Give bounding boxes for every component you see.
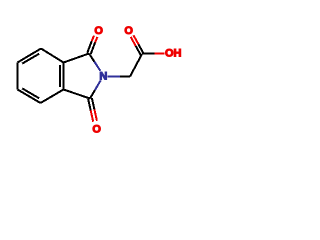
- carbonyl C3=O3 line A black part: [138, 44, 143, 53]
- benzene ring bond T-TR: [41, 49, 64, 63]
- carbonyl C1=O1 line A black part: [91, 43, 95, 55]
- bond CH2-C3: [130, 54, 142, 77]
- bond N-C2 blue half: [95, 80, 101, 90]
- carbonyl C1=O1 line B red part: [92, 36, 94, 42]
- carbonyl C1=O1 line B black part: [87, 41, 91, 53]
- carbonyl C2=O2 line A red part: [94, 109, 97, 120]
- benzene bond B-BL inner line: [22, 88, 39, 98]
- bond N-C2 black half: [90, 90, 95, 99]
- carbonyl C3=O3 line B red part: [131, 37, 136, 46]
- bond TR to carbonyl C1: [64, 54, 90, 63]
- benzene bond TL-T inner line: [22, 54, 39, 64]
- benzene ring bond BR-B: [41, 90, 64, 104]
- svg-text:OH: OH: [165, 48, 182, 60]
- bond C3-OH black half: [142, 53, 155, 55]
- bond C2-BR: [64, 90, 91, 99]
- svg-text:O: O: [94, 25, 103, 37]
- bond N-CH2 blue half: [108, 76, 121, 78]
- benzene ring bond BL-TL: [17, 63, 19, 90]
- benzene ring bond B-BL: [18, 90, 41, 104]
- carbonyl C2=O2 line B black part: [88, 99, 91, 110]
- carbonyl C1=O1 line A red part: [95, 37, 97, 43]
- carbonyl C3=O3 line A red part: [134, 35, 139, 44]
- bond C1-N black half: [89, 54, 94, 62]
- benzene ring bond TL-T: [18, 49, 42, 63]
- benzene fused bond TR-BR: [63, 63, 65, 90]
- benzene fused bond inner line: [59, 65, 61, 87]
- svg-text:O: O: [92, 124, 101, 136]
- svg-text:O: O: [124, 25, 133, 37]
- bond C1-N blue half: [94, 62, 100, 71]
- svg-text:N: N: [99, 71, 107, 83]
- carbonyl C3=O3 line B black part: [136, 46, 141, 55]
- bond C3-OH red half: [155, 53, 165, 55]
- carbonyl C2=O2 line B red part: [91, 110, 94, 121]
- carbonyl C2=O2 line A black part: [92, 98, 95, 109]
- bond N-CH2 black half: [120, 76, 130, 78]
